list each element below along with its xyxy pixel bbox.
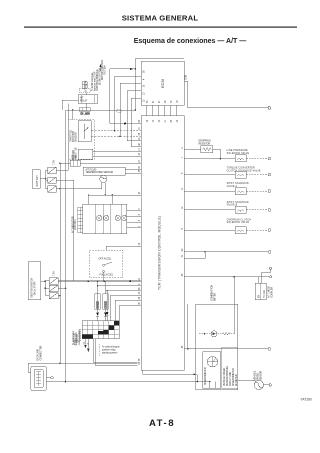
node page connector 1 [268, 106, 271, 109]
node bus dots [87, 280, 131, 282]
indicator lamp L4 [122, 215, 127, 220]
wire ECM pin4 nested [127, 90, 141, 92]
label relay contact text [80, 96, 88, 102]
combination meter box [196, 304, 238, 390]
svg-text:TCM (TRANSMISSION CONTROL MODU: TCM (TRANSMISSION CONTROL MODULE) [158, 216, 162, 290]
node riser v3 end [119, 135, 121, 137]
in-line connector on relay wire [79, 108, 90, 112]
svg-text:VALVE A: VALVE A [227, 185, 238, 188]
svg-text:A/T CHECK: A/T CHECK [268, 285, 271, 298]
fuse 7.5A battery 1 [48, 167, 57, 173]
indicator connector grid [78, 207, 83, 232]
node page connector sol5 [268, 229, 271, 232]
line pressure solenoid valve SV1 [235, 155, 246, 162]
A/T relay connector dashes [79, 89, 90, 93]
svg-text:W/ METER: W/ METER [236, 374, 238, 386]
svg-text:SOLENOID VALVE: SOLENOID VALVE [227, 221, 250, 224]
wire data link stub circle [46, 377, 53, 379]
wire ignition fuse1 to TCM bus [58, 280, 141, 282]
svg-text:SHIFT SOLENOID: SHIFT SOLENOID [227, 202, 249, 204]
wire solenoid5 pigtail [246, 229, 267, 231]
wire data link bus [28, 362, 137, 364]
TCM power bus [58, 280, 141, 282]
shift solenoid valve B SV4 [235, 206, 246, 213]
svg-text:To vehicle/engine: To vehicle/engine [102, 347, 120, 349]
A/T indicator unit box [83, 204, 127, 234]
svg-text:BATTERY: BATTERY [36, 175, 39, 187]
svg-text:IGNITION SWITCH: IGNITION SWITCH [32, 278, 34, 298]
svg-text:LINE PRESSURE: LINE PRESSURE [227, 150, 248, 152]
wire TCM comm line 1 [184, 251, 268, 253]
node indicator drop 1 [88, 194, 90, 204]
node riser v2 end [114, 130, 116, 132]
wire riser v3 [119, 83, 121, 136]
svg-text:TORQUE CONVERTER: TORQUE CONVERTER [227, 168, 255, 170]
wire riser v5 [130, 98, 132, 146]
wire fuse2 to indicator riser [56, 180, 73, 281]
svg-text:OVERRUN CLUTCH: OVERRUN CLUTCH [227, 219, 252, 221]
overrun clutch solenoid valve SV5 [235, 227, 246, 234]
svg-text:A/T RELAY: A/T RELAY [85, 80, 88, 92]
fuse 7.5A battery 3 [48, 186, 57, 192]
node fuse3 bus A [59, 188, 61, 190]
wire connector feed [60, 162, 70, 164]
wire riser v1 [109, 69, 111, 124]
wire temp sensor to TCM 2 [125, 172, 141, 174]
wire inhibitor to start stubs [86, 339, 89, 348]
wire solenoid3 pigtail [246, 190, 267, 192]
wire fuse3 to temp sensor line [56, 188, 101, 190]
wire TCM comm line 2 [184, 252, 205, 258]
node bus A end [59, 362, 61, 364]
wire accel switch to TCM [106, 246, 141, 250]
A/T relay coil [82, 82, 87, 89]
svg-text:DATA LINK: DATA LINK [37, 349, 40, 361]
svg-text:SHIFT SOLENOID: SHIFT SOLENOID [227, 183, 249, 185]
fuse 7.5A ignition 3 [49, 293, 58, 299]
svg-text:ON or START: ON or START [34, 281, 37, 296]
svg-text:7.5A: 7.5A [53, 160, 56, 165]
node page connector speed [268, 348, 271, 351]
arrow to ECM note [99, 64, 101, 71]
wire PNP sense 4 [119, 306, 141, 321]
wire VSS to page connector [263, 384, 271, 386]
title underline [24, 27, 297, 28]
svg-text:COMBINATION: COMBINATION [211, 285, 214, 301]
node sensor shield circle [269, 267, 271, 269]
wire ECM pin5 nested [131, 97, 141, 99]
wire ignition fuse feeds [45, 281, 49, 296]
wire VSS to meter [238, 380, 256, 382]
wire ignition fuse2 to bus B [58, 287, 66, 289]
in-line connector box [70, 160, 80, 166]
node ECM arrow junction [135, 68, 137, 110]
svg-text:E4 . M33: E4 . M33 [81, 114, 91, 116]
diode box 1 [95, 294, 100, 310]
node speedo junction [187, 304, 189, 350]
speedometer M1 [207, 357, 217, 367]
svg-text:To tachometer,: To tachometer, [72, 330, 75, 345]
svg-text:YAT280: YAT280 [300, 398, 312, 402]
svg-text:ECM (ECCS: ECM (ECCS [76, 332, 78, 345]
node solenoid1 junction [220, 158, 222, 160]
arrow to starting system 2 [87, 349, 89, 352]
svg-text:A/T: A/T [80, 96, 84, 99]
node v1 black junction [124, 123, 126, 125]
svg-text:FULL ACCEL: FULL ACCEL [100, 274, 114, 277]
svg-text:SYSTEM: SYSTEM [105, 65, 107, 75]
svg-text:CON: CON [186, 75, 188, 80]
wire bus B vertical [65, 110, 67, 382]
wire TCM to shift solenoid B [184, 209, 235, 211]
wire throttle switch out 2 [93, 155, 142, 157]
wire inhibitor bottom outs [93, 339, 138, 366]
wire fuse feeds [46, 170, 48, 189]
svg-text:SENSOR: SENSOR [76, 132, 78, 142]
wire indicator top feed [89, 194, 142, 196]
node duty junction [233, 276, 235, 334]
svg-text:SISTEMA GENERAL: SISTEMA GENERAL [122, 14, 199, 23]
svg-text:VEHICLE SPEED: VEHICLE SPEED [224, 367, 226, 386]
A/T relay contact box [78, 95, 97, 104]
wire solenoid2 pigtail [246, 174, 267, 176]
svg-text:CONNECTOR: CONNECTOR [41, 345, 43, 360]
svg-text:A/T FLUID: A/T FLUID [86, 169, 97, 172]
svg-text:DROPPING: DROPPING [199, 141, 211, 143]
A/T fluid temperature sensor element [100, 175, 107, 182]
node relay drop [72, 109, 74, 119]
svg-text:control module): control module) [78, 329, 81, 345]
throttle sensor dashed enclosure [68, 119, 94, 159]
wire TCM to line pressure solenoid [184, 158, 235, 160]
battery [32, 170, 40, 188]
indicator lamp L2 [104, 215, 109, 220]
wire speedo ground [210, 382, 216, 388]
svg-text:SPEEDOMETER: SPEEDOMETER [233, 368, 235, 386]
node indicator drop 2 [112, 194, 114, 204]
wire TCM to overrun clutch solenoid [184, 229, 235, 231]
TCM box U2 [141, 116, 184, 371]
shift solenoid valve A SV3 [235, 188, 246, 195]
wire fuse1 to relay riser [56, 104, 68, 171]
node ground riser [193, 374, 197, 382]
svg-text:CLUTCH SOLENOID VALVE: CLUTCH SOLENOID VALVE [227, 169, 261, 172]
A/T fluid temperature sensor box [83, 167, 125, 175]
noise resistor R3 [223, 332, 230, 335]
wire indicator outputs to TCM [127, 210, 141, 227]
svg-text:OFF ACCEL: OFF ACCEL [99, 257, 112, 260]
svg-text:COUPLER: COUPLER [272, 287, 274, 298]
wire v4 to TCM [127, 140, 141, 142]
wire ECM pin1 with arrow [110, 68, 136, 70]
wire ECM pin3 nested [120, 82, 141, 84]
wire bus A vertical [59, 163, 61, 363]
diode D2 [104, 312, 107, 320]
node page connector sol3 [268, 190, 271, 193]
svg-text:SENSOR MODULE: SENSOR MODULE [227, 365, 229, 386]
node battery junction [45, 170, 47, 189]
wire ignition fuse3 to bus A [58, 295, 60, 297]
diode D1 [96, 312, 99, 320]
node comm junction [204, 251, 206, 253]
node page connector sol2 [268, 173, 271, 176]
svg-text:RX: RX [259, 294, 261, 298]
wire speedo signal [184, 348, 268, 350]
node bus B ground [65, 381, 67, 383]
svg-text:7.5A: 7.5A [53, 271, 56, 276]
wire connector to TCM [80, 162, 141, 164]
closed throttle position switch S2 [78, 149, 92, 159]
ECM bottom pins to TCM [147, 105, 177, 116]
wire resistor to solenoid line [213, 149, 221, 158]
AT check block [255, 272, 266, 300]
wire relay box top stub [85, 82, 87, 110]
node PNP sense 1 [106, 290, 108, 312]
svg-text:RELAY: RELAY [80, 99, 88, 102]
wire solenoid1 pigtail [246, 158, 267, 160]
node page connector sol4 [268, 209, 271, 212]
arrow to starting system 1 [84, 345, 86, 348]
svg-text:DIODE: DIODE [98, 301, 100, 309]
node relay line to ECM riser [135, 109, 137, 111]
dropping resistor R1 [201, 146, 213, 153]
node ignition junction [45, 280, 47, 295]
svg-text:RESISTOR: RESISTOR [199, 143, 211, 145]
svg-text:Esquema de conexiones — A/T —: Esquema de conexiones — A/T — [134, 38, 247, 45]
svg-text:SENSOR: SENSOR [261, 370, 263, 380]
node speed line dot [204, 333, 206, 335]
wire TCM bottom pin 1 [143, 370, 198, 374]
accelerator switch dashed box [90, 250, 123, 278]
svg-text:TX CLK: TX CLK [264, 289, 266, 298]
node second bus [97, 285, 99, 287]
wire v1 to TCM [110, 123, 141, 125]
vehicle speed sensor diode [211, 331, 217, 337]
wire sensor shielded 1 [91, 130, 141, 132]
node page connector comm [268, 251, 271, 254]
wire ignition to fuses [41, 280, 46, 282]
wire second bus [98, 285, 141, 287]
diode box 2 [103, 294, 108, 310]
node page connector duty [270, 276, 272, 278]
ECM box U1 [141, 61, 184, 105]
wire ECM pin2 nested [115, 75, 142, 77]
wire v5 to TCM [131, 146, 141, 148]
diode D3 [106, 312, 109, 321]
throttle position sensor R2 [78, 121, 91, 142]
wire relay output [66, 109, 136, 111]
svg-text:FOR A/T AND: FOR A/T AND [229, 371, 232, 386]
inhibitor contact cells [82, 321, 119, 339]
ECM right pin [184, 81, 188, 108]
wire temp sensor leads [102, 182, 106, 195]
fuse 7.5A ignition 2 [49, 285, 58, 291]
wire sensor shielded 2 [91, 135, 141, 137]
fuse 7.5A battery 2 [48, 177, 57, 183]
wire ECM to connector circle [188, 107, 268, 109]
wire TCM to shift solenoid A [184, 190, 235, 192]
wire accel switch bottom [103, 273, 105, 282]
node fuse3 bus A join [59, 295, 61, 297]
wire PNP sense 2 [111, 295, 141, 321]
svg-text:VEHICLE: VEHICLE [255, 370, 257, 380]
node page connector sol1 [268, 157, 271, 160]
svg-text:VALVE B: VALVE B [227, 204, 238, 207]
indicator lamp L3 [115, 215, 120, 220]
node bus A connector [59, 163, 61, 165]
svg-text:position relay,: position relay, [102, 349, 116, 352]
speedometer box [203, 352, 221, 388]
indicator lamp L1 [97, 215, 102, 220]
wire PNP sense 3 [115, 300, 141, 321]
svg-text:M12: M12 [72, 154, 74, 159]
svg-text:TEMPERATURE SENSOR: TEMPERATURE SENSOR [86, 171, 114, 174]
wire TCM duty line [184, 276, 269, 278]
svg-text:SPEEDOMETER: SPEEDOMETER [205, 367, 207, 385]
inhibitor switch grid [82, 321, 119, 339]
node ground bus dots [196, 381, 210, 383]
wire data link feed [28, 363, 31, 372]
data link connector [31, 367, 46, 391]
wire TCM to dropping resistor [184, 148, 201, 150]
svg-text:starting system: starting system [102, 352, 118, 355]
svg-text:AT-8: AT-8 [149, 418, 175, 429]
wire ground bus lower [46, 381, 210, 383]
wire riser v2 [114, 76, 116, 130]
svg-text:(O/D OFF): (O/D OFF) [75, 219, 77, 230]
dashed note separator [99, 344, 101, 356]
wire ECM top feed [135, 58, 184, 69]
node temp sensor lead2 [105, 194, 107, 196]
node fuse2 bus B [65, 288, 67, 290]
wire speed sensor dashed [199, 333, 234, 335]
vehicle speed sensor VSS [254, 380, 263, 389]
wire PNP sense 1 [107, 290, 141, 292]
connector marker on riser [117, 110, 121, 113]
svg-text:METER: METER [215, 293, 217, 301]
wire TCM to TCC solenoid [184, 174, 235, 176]
wire battery to fuses [40, 178, 45, 180]
svg-text:ECM: ECM [160, 79, 165, 88]
wire riser v4 [126, 91, 128, 141]
ignition switch box [28, 262, 40, 300]
wire shield stub [262, 270, 271, 273]
wire temp sensor to TCM 1 [125, 169, 141, 171]
wire throttle switch out 1 [93, 151, 142, 153]
wire relay left pin [62, 100, 78, 110]
torque converter clutch solenoid valve SV2 [235, 171, 246, 178]
svg-text:SPEED: SPEED [258, 372, 260, 380]
wire solenoid4 pigtail [246, 209, 267, 211]
accelerator switch contacts S3 [103, 262, 112, 272]
wire diode risers [98, 281, 106, 312]
fuse 7.5A ignition 1 [49, 278, 58, 284]
svg-text:SOLENOID VALVE: SOLENOID VALVE [227, 152, 250, 155]
vehicle speed sensor text block [222, 347, 238, 388]
